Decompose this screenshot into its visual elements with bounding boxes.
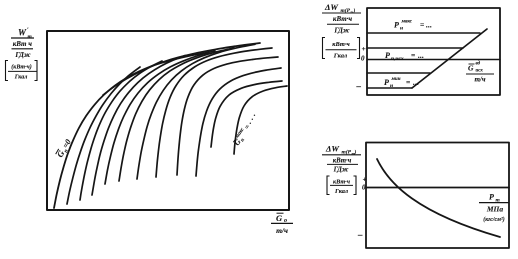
svg-text:н: н xyxy=(390,83,393,89)
curve 5 xyxy=(105,53,209,185)
curve 6 xyxy=(119,48,234,181)
svg-text:п,исх: п,исх xyxy=(391,56,404,62)
svg-text:+: + xyxy=(362,44,366,53)
svg-text:–: – xyxy=(356,81,362,91)
curve 4 xyxy=(92,56,185,196)
decreasing curve xyxy=(377,159,500,237)
svg-text:0: 0 xyxy=(362,184,366,192)
svg-text:(кВт·ч): (кВт·ч) xyxy=(11,63,31,70)
svg-text:ΔW: ΔW xyxy=(325,144,340,154)
curve 3 xyxy=(80,61,162,200)
svg-text:т/ч: т/ч xyxy=(276,226,288,235)
svg-text:исх: исх xyxy=(476,69,484,74)
svg-text:(кгс/см²): (кгс/см²) xyxy=(483,216,504,223)
zero line (top-right plot) xyxy=(367,59,500,61)
svg-text:кВт·ч: кВт·ч xyxy=(333,178,351,185)
svg-text:МПа: МПа xyxy=(486,204,504,213)
curve 11 xyxy=(211,81,282,147)
envelope merged band xyxy=(103,51,215,95)
curve label G_p^max = ... (rotated) xyxy=(230,111,261,149)
svg-text:ΔW: ΔW xyxy=(324,2,339,12)
svg-text:кВт·ч: кВт·ч xyxy=(333,157,352,164)
svg-text:=: = xyxy=(406,78,410,87)
svg-text:кВт·ч: кВт·ч xyxy=(333,15,352,23)
svg-text:0: 0 xyxy=(361,55,365,63)
svg-text:ГДж: ГДж xyxy=(14,51,30,59)
svg-text:Гкал: Гкал xyxy=(333,52,348,59)
top-right plot axes box xyxy=(367,8,500,95)
curve 2 xyxy=(67,67,140,204)
svg-text:макс: макс xyxy=(401,20,413,25)
svg-text:мин: мин xyxy=(391,77,401,82)
svg-text:=: = xyxy=(411,51,415,60)
svg-text:P: P xyxy=(385,51,390,60)
svg-text:G: G xyxy=(276,213,283,223)
zero line (bottom-right plot) xyxy=(366,187,509,189)
diagonal constraint line xyxy=(412,29,487,88)
svg-text:н: н xyxy=(400,26,403,32)
curve label G_p=0 (rotated) xyxy=(55,137,75,160)
svg-text:Гкал: Гкал xyxy=(14,75,28,81)
left plot axes box xyxy=(47,31,289,210)
svg-text:W: W xyxy=(18,28,27,38)
curve 8 xyxy=(156,48,272,177)
svg-text:′: ′ xyxy=(27,28,29,34)
svg-text:ГДж: ГДж xyxy=(333,167,349,174)
curve 7 xyxy=(137,44,255,179)
svg-text:P: P xyxy=(394,21,399,30)
line P_p,isx xyxy=(367,47,463,49)
svg-text:=: = xyxy=(420,20,424,29)
svg-text:т/ч: т/ч xyxy=(474,76,485,84)
svg-text:...: ... xyxy=(413,78,419,87)
svg-text:вд: вд xyxy=(476,62,481,67)
bottom-right plot x-axis label xyxy=(479,193,509,224)
curve 12 (G_p max) xyxy=(234,86,287,154)
svg-text:P: P xyxy=(489,193,494,202)
bottom-right plot axes box xyxy=(366,143,509,249)
curve 1 (G_p=0) with upper envelope xyxy=(54,43,260,208)
svg-text:P: P xyxy=(384,78,389,87)
svg-text:Гкал: Гкал xyxy=(334,188,348,195)
svg-text:...: ... xyxy=(418,51,424,60)
svg-text:ГДж: ГДж xyxy=(333,26,349,34)
svg-text:–: – xyxy=(357,230,363,240)
svg-text:кВт·ч: кВт·ч xyxy=(332,41,350,48)
curve 10 xyxy=(196,68,281,176)
svg-text:кВт ч: кВт ч xyxy=(13,40,32,48)
unlabeled line xyxy=(367,72,430,74)
svg-text:G: G xyxy=(468,64,474,73)
svg-text:...: ... xyxy=(426,21,432,30)
svg-text:+: + xyxy=(363,175,367,184)
line P_n^min xyxy=(367,87,412,89)
svg-text:т: т xyxy=(28,34,33,40)
curve 9 xyxy=(177,57,278,175)
svg-text:=0: =0 xyxy=(61,138,73,150)
line P_n^max xyxy=(367,32,480,34)
top-right plot inner labels xyxy=(384,20,494,90)
